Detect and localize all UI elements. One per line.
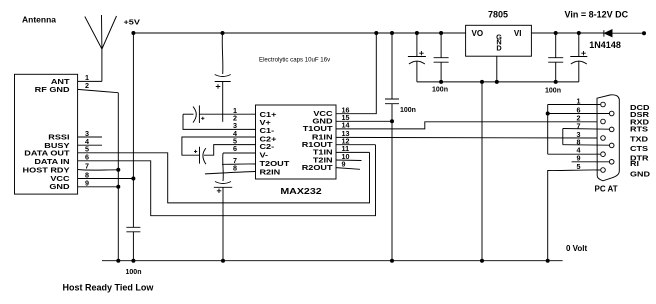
- rail junctions: [116, 259, 120, 263]
- svg-text:R2OUT: R2OUT: [302, 164, 333, 172]
- junction pin7: [116, 168, 120, 172]
- svg-text:6: 6: [233, 144, 237, 153]
- svg-text:Host Ready Tied Low: Host Ready Tied Low: [63, 283, 155, 293]
- wire pin13 R1IN to DB9 pin3: [336, 136, 600, 139]
- svg-text:MAX232: MAX232: [280, 187, 321, 197]
- ground bus under 7805: [417, 81, 579, 83]
- wire RTS-CTS tie vertical: [562, 129, 564, 145]
- svg-text:7805: 7805: [488, 9, 508, 19]
- svg-text:8: 8: [233, 163, 237, 172]
- wire DB9 pin5 GND down to rail: [548, 170, 601, 261]
- svg-text:RTS: RTS: [630, 126, 649, 134]
- svg-text:Antenna: Antenna: [22, 15, 56, 25]
- svg-text:R2IN: R2IN: [259, 168, 280, 176]
- wire DB9 pin1 DCD: [548, 104, 601, 106]
- junction DSR: [546, 112, 550, 116]
- module U1 pin labels: [23, 78, 71, 191]
- capacitor C4 electrolytic V-: [214, 153, 232, 261]
- wire pin7 T2OUT stub: [222, 163, 256, 165]
- svg-text:HOST RDY: HOST RDY: [23, 166, 71, 174]
- capacitor C9 100n (module decoupling): [126, 227, 140, 232]
- svg-text:V-: V-: [259, 151, 268, 159]
- svg-text:TXD: TXD: [630, 135, 648, 143]
- svg-text:GND: GND: [49, 183, 69, 191]
- wire pin9 GND: [78, 186, 119, 188]
- svg-text:ANT: ANT: [51, 78, 70, 86]
- svg-text:D: D: [496, 43, 501, 52]
- wire pin8 R2IN stub: [205, 172, 256, 174]
- wire DCD-DSR-DTR tie vertical: [547, 105, 549, 155]
- junction pin8: [131, 177, 135, 181]
- module pin numbers: [85, 73, 89, 187]
- svg-text:RSSI: RSSI: [48, 134, 69, 142]
- MAX232 pin numbers right: [342, 106, 350, 169]
- svg-text:5: 5: [577, 162, 581, 171]
- antenna: [85, 15, 117, 81]
- svg-text:100n: 100n: [400, 107, 416, 114]
- junction pin15: [390, 119, 394, 123]
- svg-text:2: 2: [85, 81, 89, 90]
- svg-text:100n: 100n: [126, 269, 142, 276]
- wire pin3 RSSI stub: [78, 136, 102, 138]
- wire DB9 pin6 DSR: [548, 113, 609, 115]
- DB9 pin numbers: [577, 96, 581, 171]
- wire pin10 T2IN stub: [336, 159, 362, 162]
- capacitor C6 electrolytic 10uF (7805 input side left): [408, 31, 426, 82]
- junction VCC rail: [374, 31, 378, 35]
- svg-text:C1-: C1-: [259, 127, 274, 135]
- svg-text:BUSY: BUSY: [44, 142, 70, 150]
- svg-text:C1+: C1+: [259, 111, 276, 119]
- svg-text:GND: GND: [630, 170, 650, 178]
- wire pin11 T1IN down: [336, 151, 370, 153]
- svg-text:0 Volt: 0 Volt: [566, 244, 588, 253]
- svg-text:R1IN: R1IN: [312, 133, 333, 141]
- svg-text:Electrolytic caps 10uF 16v: Electrolytic caps 10uF 16v: [259, 57, 331, 64]
- capacitor C7 100n (7805 out): [434, 31, 449, 84]
- svg-text:9: 9: [85, 179, 89, 188]
- svg-text:1N4148: 1N4148: [589, 40, 621, 50]
- wire pin6 V-: [223, 152, 256, 154]
- wire DB9 pin7 RTS: [563, 128, 609, 131]
- voltage regulator 7805: [466, 25, 532, 56]
- wire down to 0V rail: [481, 82, 483, 261]
- wire 7805 GND lead: [496, 56, 498, 82]
- svg-text:VCC: VCC: [313, 110, 332, 118]
- wire pin4 BUSY stub: [78, 144, 102, 146]
- connector J1 DB9 PC AT: [597, 95, 619, 181]
- terminal Vin: [642, 31, 646, 35]
- RF module U1: [15, 74, 78, 194]
- wire ground vertical: [117, 93, 119, 261]
- DB9 signal labels: [630, 104, 650, 178]
- wire pin16 VCC: [336, 33, 376, 114]
- svg-text:GND: GND: [312, 118, 332, 126]
- wire pin12 R1OUT down: [336, 144, 376, 146]
- svg-text:CTS: CTS: [630, 145, 649, 153]
- wire pin7 HOST RDY: [78, 169, 119, 172]
- capacitor C5 100n (MAX232 GND): [385, 31, 399, 261]
- svg-text:DATA IN: DATA IN: [34, 158, 69, 166]
- op-amp U2 MAX232 box: [256, 105, 337, 179]
- svg-text:T1OUT: T1OUT: [303, 125, 333, 133]
- svg-text:7: 7: [85, 161, 89, 170]
- wire pin9 R2OUT stub: [336, 168, 360, 170]
- svg-text:9: 9: [342, 159, 346, 168]
- svg-text:T2OUT: T2OUT: [259, 160, 289, 168]
- svg-text:Vin = 8-12V DC: Vin = 8-12V DC: [565, 9, 629, 19]
- wire DB9 pin4 DTR: [548, 153, 601, 155]
- wire pin6 DATA IN: [78, 145, 376, 216]
- svg-text:6: 6: [85, 153, 89, 162]
- U2 pin labels: [259, 110, 332, 176]
- svg-text:DATA OUT: DATA OUT: [24, 150, 69, 158]
- wire pin8 VCC: [78, 178, 134, 180]
- top rail right of 7805: [532, 32, 604, 34]
- junction GND lead: [495, 80, 499, 84]
- wire pin14 T1OUT to DB9 pin2: [336, 122, 600, 129]
- top +5V rail: [133, 32, 465, 34]
- capacitor C2 (pins 4-5): [182, 137, 256, 164]
- wire DB9 pin9 RI stub: [572, 161, 609, 163]
- svg-text:R1OUT: R1OUT: [302, 141, 333, 149]
- wire pin1 ANT: [78, 80, 102, 82]
- svg-text:PC AT: PC AT: [595, 185, 618, 194]
- wire pin5 DATA OUT: [78, 152, 370, 203]
- MAX232 pin numbers left: [233, 106, 237, 172]
- svg-text:RI: RI: [630, 160, 639, 168]
- svg-text:C2+: C2+: [259, 135, 276, 143]
- svg-text:VCC: VCC: [50, 175, 69, 183]
- svg-text:VI: VI: [514, 29, 522, 38]
- wire pin2 RF GND to ground vertical: [78, 89, 119, 92]
- capacitor C8 100n (7805 input): [548, 31, 563, 84]
- svg-text:C2-: C2-: [259, 143, 274, 151]
- svg-text:V+: V+: [259, 119, 271, 127]
- svg-text:+5V: +5V: [123, 18, 140, 26]
- U3 pin labels VO GND VI: [472, 29, 522, 52]
- wire pin15 GND: [336, 120, 392, 122]
- capacitor C1 (pins 1-3): [183, 105, 256, 129]
- bottom 0V rail: [102, 260, 563, 262]
- junction +5V: [131, 31, 135, 35]
- svg-text:RF GND: RF GND: [35, 86, 70, 94]
- svg-text:VO: VO: [472, 29, 484, 38]
- +5V rail vertical: [132, 33, 134, 227]
- capacitor C10 electrolytic (input): [570, 31, 587, 82]
- svg-text:100n: 100n: [545, 88, 561, 95]
- svg-text:100n: 100n: [432, 87, 448, 94]
- junction pin9: [116, 185, 120, 189]
- svg-text:1: 1: [577, 96, 581, 105]
- wire DB9 pin8 CTS: [563, 144, 609, 147]
- svg-text:T2IN: T2IN: [313, 156, 333, 164]
- svg-text:T1IN: T1IN: [313, 149, 333, 157]
- diode D1 1N4148: [604, 30, 612, 37]
- capacitor C3 electrolytic V+: [215, 31, 231, 122]
